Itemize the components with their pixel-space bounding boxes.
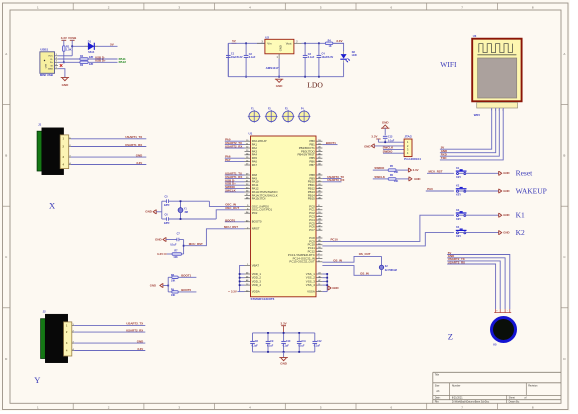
svg-text:BOOT0: BOOT0 [225,218,235,222]
wire LDO out rail [302,42,344,44]
wire VUSB vertical to pin1 [71,46,73,56]
svg-text:32.768KHZ: 32.768KHZ [385,269,398,272]
svg-text:PA7: PA7 [225,158,231,162]
svg-text:3.3V: 3.3V [136,161,142,165]
MCU left pins group PA0-PA7 [245,139,267,167]
svg-text:K2: K2 [516,228,525,237]
svg-text:USB D+: USB D+ [95,59,106,63]
svg-text:10uF/6.3V: 10uF/6.3V [231,56,243,59]
svg-text:22PF: 22PF [164,222,170,225]
svg-text:VCC: VCC [48,56,53,58]
svg-text:8M: 8M [185,211,188,214]
wire OSC_IN [209,201,244,206]
svg-text:NRST: NRST [252,227,260,231]
wire WiFi GND [440,108,496,153]
ground GND (crystal) [145,210,156,215]
svg-text:3.3V: 3.3V [157,252,163,256]
svg-text:OS_OUT: OS_OUT [359,252,371,256]
svg-text:PC10: PC10 [331,238,339,242]
crystal X2 32.768KHZ [379,256,397,275]
power port 3.3V (USB pullup) [61,36,67,46]
power label 3.3V (VDDA) [229,290,237,294]
svg-text:3.3V: 3.3V [336,39,342,43]
regulator U2 AMS1117 [265,35,294,70]
svg-text:C11: C11 [302,340,307,343]
svg-text:0.1uF: 0.1uF [308,56,315,59]
LED D2 [340,51,357,63]
module U3 WIFI ESP8266 [472,34,521,101]
svg-text:GND: GND [145,210,153,214]
border row ticks and letters [3,52,569,361]
power port 3.3V (reset pullup) [157,252,167,256]
MCU pin NRST [245,227,260,231]
wire net USB D+ [225,182,245,186]
svg-text:Z: Z [448,332,453,342]
svg-text:GND: GND [155,237,163,241]
svg-text:GND: GND [503,231,509,235]
svg-text:USART3_RX: USART3_RX [327,178,344,182]
wire net BOOT0 (pulldown) [178,288,196,292]
wire Y pin1 USART2_TX [72,322,146,326]
svg-text:GND: GND [414,177,420,181]
svg-text:10K: 10K [171,294,176,297]
svg-text:U5: U5 [493,342,497,346]
svg-text:PD2: PD2 [252,211,258,215]
svg-text:10K: 10K [173,256,178,259]
MCU right pins VSS_1..VSS_4 [306,272,323,287]
connector J1 (X) [37,122,69,174]
svg-text:PA0: PA0 [427,187,433,191]
wire OSC32 in [322,252,381,263]
svg-text:Revision: Revision [528,385,538,388]
wire VBAT to 3.3V bus [240,265,245,274]
svg-text:of: of [524,397,526,400]
MCU right pins PB0-PB7 [297,139,322,167]
svg-text:Pin HDR1X4: Pin HDR1X4 [404,157,421,161]
mounting hole F1 [248,109,261,123]
svg-text:C13: C13 [388,136,393,139]
wire Z USART2_RX [447,260,495,309]
capacitor C7 0.1uF (reset) [166,232,184,246]
wire gnd to boot node [163,285,168,287]
WiFi pin stubs [491,109,505,112]
svg-text:0.1uF: 0.1uF [170,244,177,247]
wire X pin4 3.3V [69,161,147,165]
svg-text:SWDIO: SWDIO [383,150,394,154]
switch K2 (WAKEUP) [426,185,499,197]
resistor R2 22R [80,55,94,60]
ground GND (JTAG cap) [381,121,389,129]
svg-text:GND: GND [364,145,370,149]
wire USB D- to PA11 [88,58,117,60]
capacitor C3 0.1uF (output) [303,43,315,76]
wire PC11 to K2 [322,233,454,246]
resistor R8 10K (BOOT1) [168,274,178,283]
svg-text:10uF/6.3V: 10uF/6.3V [322,56,334,59]
power port 3.3V (decoupling) [281,321,287,333]
node R1/D+ [63,61,65,63]
node C4 bottom [318,76,320,78]
resistor R1 1.5K [63,45,72,52]
svg-text:0.1uF: 0.1uF [249,56,256,59]
wire 5V rail [228,42,265,44]
svg-text:SWDIO: SWDIO [374,166,385,170]
MCU right pin VSSA [307,290,322,294]
svg-text:AMS1117: AMS1117 [266,66,279,70]
svg-text:PB7: PB7 [309,163,315,167]
svg-text:U1: U1 [249,132,253,136]
svg-text:8/21/2021: 8/21/2021 [452,397,463,400]
wire MCU_RST to NRST [184,225,245,246]
svg-text:Vout: Vout [286,42,292,46]
ground GND (K2) [499,189,510,194]
svg-text:TXD: TXD [441,156,447,160]
capacitor C8 0.1uF [250,333,258,352]
ground GND (LDO) [275,79,283,88]
svg-text:STM32F103C8T6: STM32F103C8T6 [251,297,275,301]
svg-text:MINI USB: MINI USB [40,73,53,77]
3.3V bus left [238,273,245,292]
svg-text:LDO: LDO [307,81,323,90]
svg-text:3.3V: 3.3V [61,36,67,40]
mounting hole F4 [298,108,311,123]
svg-text:Y: Y [34,375,40,385]
wire pin5 GND [58,69,65,78]
wire OSC_OUT [216,206,244,219]
svg-text:OS_IN: OS_IN [360,271,369,275]
svg-text:J2: J2 [43,309,46,313]
svg-text:U2: U2 [265,35,269,39]
switch K4 (K2) [456,226,499,238]
MCU right pins PC0-PC7 [309,204,322,232]
svg-text:Reset: Reset [516,169,534,178]
svg-text:D-: D- [50,59,53,61]
wire X pin1 USART1_TX [69,135,147,139]
wire net PA7 [225,158,245,162]
wire WiFi RXD [440,108,499,157]
svg-text:GND: GND [280,362,288,366]
svg-text:JTAG: JTAG [404,135,412,139]
wire net BOOT1 (pulldown) [178,274,196,278]
wire R1 bottom to D+ node [63,51,65,62]
wire WiFi 5V [440,108,492,150]
MCU right pins PB8-PB15 [308,173,323,201]
svg-text:GND: GND [276,84,284,88]
svg-text:Number: Number [452,385,461,388]
wire net USART2_TX [225,141,245,145]
svg-text:Sheet: Sheet [509,397,516,400]
capacitor C13 0.1uF (JTAG) [383,128,395,142]
svg-text:GND: GND [136,153,142,157]
svg-text:USART1_RX: USART1_RX [125,143,142,147]
svg-text:22R: 22R [89,63,94,66]
svg-text:Title: Title [435,374,440,377]
svg-text:A: A [563,52,565,56]
svg-text:C12: C12 [317,340,322,343]
resistor R7 10K (reset) [167,250,184,260]
svg-text:GND: GND [48,69,53,71]
svg-text:USART2_TX: USART2_TX [126,322,143,326]
capacitor C1 10uF (input polarized) [226,43,243,76]
svg-text:10K: 10K [394,171,399,174]
connector J2 (Y) [41,309,72,362]
svg-text:MCU_RST: MCU_RST [189,242,203,246]
svg-text:PC15-OSC32_OUT: PC15-OSC32_OUT [289,260,315,264]
mounting hole F2 [265,109,278,123]
MCU right pins PC8-PC15 [288,236,322,264]
ground GND (K3) [499,213,510,218]
svg-text:K1: K1 [516,211,525,220]
USB pin stubs [55,54,58,69]
wire gnd to bus [156,211,162,213]
capacitor C4 10uF (output polarized) [317,43,334,76]
svg-text:BOOT0: BOOT0 [181,288,191,292]
svg-text:PA12: PA12 [119,60,127,64]
node C4 top [318,42,320,44]
svg-text:VBAT: VBAT [252,263,260,267]
wire reset node vertical [183,240,185,255]
wire Y pin2 USART2_RX [72,328,146,332]
wire OSC32 out [322,266,381,276]
svg-text:22PF: 22PF [164,204,170,207]
wire pin2 D- row [58,58,80,60]
ground GND (reset cap) [155,237,166,242]
svg-text:C10: C10 [286,340,291,343]
svg-text:GND: GND [62,83,70,87]
power port 3.3V (JTAG) [371,135,380,143]
wire net SWDIO [225,185,245,189]
ground GND (K4) [499,230,510,235]
svg-text:5V: 5V [110,42,114,46]
svg-text:B: B [5,154,7,158]
wire net BOOT0 [225,218,245,222]
wire pin1 VBUS [58,55,72,57]
svg-text:0.1uF: 0.1uF [283,345,290,348]
svg-text:SS14: SS14 [88,51,95,54]
svg-text:VSSA: VSSA [307,290,315,294]
svg-text:PA15/JTDI: PA15/JTDI [252,197,266,201]
wire net USART1_TX [225,172,245,176]
svg-text:A: A [5,52,7,56]
wire diode line to 5V [72,45,117,47]
MCU left pins group PA8-PA15 [245,173,279,201]
resistor R9 10K (BOOT0) [168,289,178,298]
wire net SWDIO (JTAG) [383,150,405,154]
wire Z GND [447,254,505,309]
node VUSB/diode [71,45,73,47]
capacitor C9 0.1uF [266,332,274,353]
switch K1 (Reset) [427,167,499,179]
WiFi shield (gray) [478,58,517,98]
svg-text:BOOT0: BOOT0 [252,220,262,224]
power port VUSB [68,36,77,46]
svg-text:0.1uF: 0.1uF [267,345,274,348]
capacitor C10 0.1uF [281,332,291,353]
svg-text:USB1: USB1 [40,48,48,52]
wire PC10 to K1 [322,215,454,241]
ground GND (BOOT pulldowns) [150,283,163,288]
svg-text:Drawn By:: Drawn By: [509,401,520,404]
wire X pin2 USART1_RX [69,143,147,147]
svg-text:U3: U3 [473,34,477,38]
node reset [183,245,185,247]
U2 pin 3 [257,41,265,43]
svg-text:J1: J1 [38,122,41,126]
svg-text:OSC_OUT: OSC_OUT [225,206,239,210]
svg-text:KEY: KEY [456,176,461,179]
resistor R4 10K (LED) [325,39,332,47]
wire net PA6 [225,155,245,159]
svg-text:USART1_TX: USART1_TX [125,135,142,139]
switch K3 (K1) [456,209,499,221]
wire JTAG pin1 [378,141,404,143]
MCU pin VDDA [245,290,260,294]
wire Z 5V [447,251,510,309]
MCU pin VBAT [245,263,260,267]
svg-text:VUSB: VUSB [68,36,77,40]
svg-text:WIFI: WIFI [440,60,457,69]
speaker U5 (round) [492,318,516,347]
svg-text:10K: 10K [171,280,176,283]
svg-text:10K: 10K [394,180,399,183]
WiFi bottom strip [477,102,518,108]
capacitor C11 0.1uF [297,332,307,353]
wire USB D+ to PA12 [88,61,117,63]
title block [433,372,561,403]
svg-text:B: B [563,154,565,158]
wire net SWCLK [225,189,245,193]
wire net PA0 [225,138,245,142]
wire pin3 D+ row [58,61,80,63]
wire net BOOT1 [322,141,337,145]
svg-text:GND: GND [150,284,156,288]
svg-text:Date:: Date: [435,397,441,400]
svg-text:GND: GND [278,45,282,51]
diode D1 SS14 [85,40,99,53]
svg-text:File:: File: [435,401,440,404]
capacitor C12 0.1uF [313,333,323,352]
ground GND (R6) [409,177,421,182]
U2 pin 2 [294,41,302,43]
svg-text:GND: GND [503,171,509,175]
wire LED to gnd rail [343,62,345,76]
svg-text:KEY: KEY [456,235,461,238]
svg-text:PB15: PB15 [308,197,315,201]
MCU pins VDD_1..VDD_4 [245,272,262,287]
svg-text:5V: 5V [232,39,236,43]
svg-text:GND: GND [332,286,338,290]
ground GND (K1) [499,171,510,176]
node boot gnd [167,285,169,287]
svg-text:3.3V: 3.3V [231,290,237,294]
wire to LED [333,43,344,52]
node JTAG cap [384,141,386,143]
wire Z USART2_TX [447,257,500,309]
svg-text:0.1uF: 0.1uF [314,345,321,348]
svg-text:KEY: KEY [456,218,461,221]
mounting hole F3 [282,109,295,123]
MCU pin BOOT0 [245,220,262,224]
svg-text:WIFI: WIFI [474,113,480,117]
svg-text:VDDA: VDDA [252,290,260,294]
svg-text:USART2_RX: USART2_RX [126,328,143,332]
decoupling rails [253,333,315,352]
boot gnd vertical [167,277,169,292]
wire net USART1_RX [225,175,245,179]
no-connect X on pin4 [60,64,63,67]
wire U2 gnd down [278,59,280,77]
svg-text:1.5K: 1.5K [66,48,72,52]
crystal Y1 8M [178,200,188,220]
svg-text:3.3V: 3.3V [371,135,377,139]
svg-text:0.1uF: 0.1uF [252,345,259,348]
resistor R3 22R [80,61,94,67]
capacitor C2 0.1uF [244,43,256,76]
wire X pin3 GND [69,153,147,157]
svg-text:BOOT1: BOOT1 [181,274,191,278]
svg-text:Size: Size [435,385,440,388]
svg-text:3.3V: 3.3V [137,347,143,351]
wire WiFi TXD [440,108,503,160]
svg-text:D:\WorkBack\DatumxBase.SchDoc: D:\WorkBack\DatumxBase.SchDoc [452,401,490,404]
wire net SWCLK (JTAG) [383,146,405,150]
svg-text:USART2_RX: USART2_RX [448,260,465,264]
power port 5V (LDO in) [232,39,237,43]
connector USB1 MINI USB [40,48,55,78]
MCU U1 STM32F103C8T6 body [249,132,317,301]
svg-text:GND: GND [137,339,143,343]
svg-text:USART2_RX: USART2_RX [225,145,242,149]
wire net USART3_RX [322,178,344,182]
svg-text:BOOT1: BOOT1 [326,141,336,145]
wire net USB D- [225,178,245,182]
ground GND (decoupling) [279,352,287,366]
Z module pin bar [494,309,511,313]
svg-text:Vin: Vin [267,42,272,46]
wire net USART3_TX [322,175,344,179]
svg-text:SWCLK: SWCLK [225,189,237,193]
svg-text:VSS_4: VSS_4 [306,283,315,287]
svg-text:3.3V: 3.3V [413,168,419,172]
svg-text:KEY: KEY [456,194,461,197]
power port 3.3V (R5) [408,168,418,173]
wire Y pin3 GND [72,339,146,343]
svg-text:1K: 1K [329,45,332,48]
svg-text:PA7: PA7 [252,163,258,167]
svg-text:USB: USB [46,63,48,68]
ground GND (VSS) [328,286,339,291]
ground GND (JTAG pin2) [364,144,404,149]
svg-text:SWCLK: SWCLK [374,175,386,179]
svg-text:MCU_RST: MCU_RST [429,169,443,173]
svg-text:PC7: PC7 [309,228,315,232]
resistor R5 10K SWDIO pull-up [373,165,409,174]
node LDO gnd rail [278,76,280,78]
capacitor C6 22PF (bottom) [162,213,216,225]
connector P1 JTAG header [404,135,421,162]
node C3 top [304,42,306,44]
svg-text:MCU_RST: MCU_RST [224,225,238,229]
ground GND (USB) [61,78,69,88]
node C3 bottom [304,76,306,78]
capacitor C5 22PF (top) [162,196,210,208]
svg-text:LED: LED [352,54,357,57]
svg-text:X: X [49,201,55,211]
resistor R6 10K SWCLK pull-down [373,174,409,183]
svg-text:WAKEUP: WAKEUP [516,186,547,195]
VSS bus right [322,273,328,292]
WiFi antenna meander [477,44,516,55]
